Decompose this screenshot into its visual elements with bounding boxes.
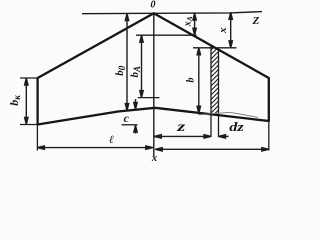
svg-text:b: b [186,78,197,83]
svg-text:Z: Z [252,15,260,27]
svg-text:xA: xA [183,16,195,27]
svg-text:x: x [217,27,229,34]
svg-text:dz: dz [229,120,244,134]
svg-text:z: z [176,119,187,134]
svg-text:x: x [151,153,157,164]
svg-text:c: c [124,111,130,125]
svg-text:0: 0 [151,0,156,11]
svg-text:ℓ: ℓ [109,134,114,146]
